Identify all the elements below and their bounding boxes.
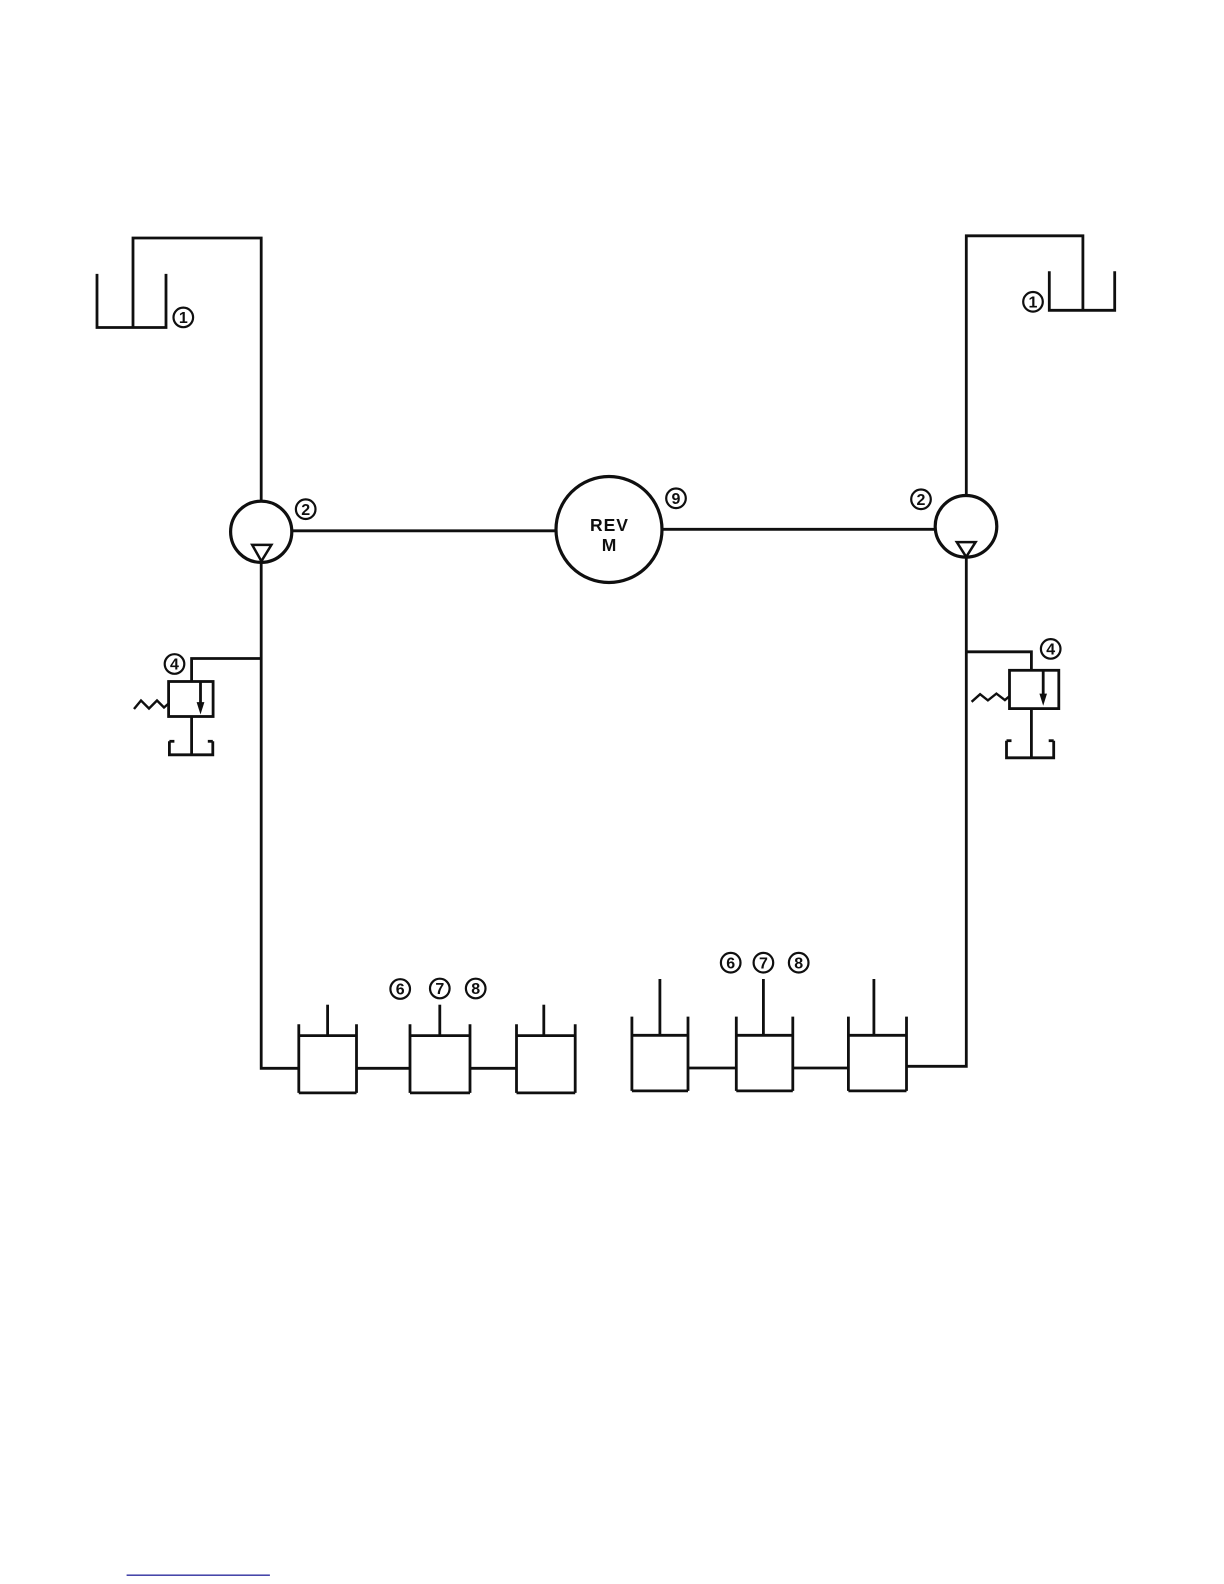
pump 2 (right) flow triangle: [957, 542, 976, 557]
motor U9 REV M: [556, 477, 662, 583]
label 8 (left group callout): [466, 979, 486, 999]
label 2 (right pump callout): [911, 490, 931, 510]
wire: right pressure line down to box group: [907, 557, 967, 1066]
reservoir 1 (right tank): [1049, 271, 1114, 310]
label 7 (left group callout): [430, 979, 450, 999]
relief valve 4 (left) body: [169, 682, 214, 717]
wire: left pump to motor: [292, 529, 557, 532]
svg-text:8: 8: [471, 981, 480, 998]
pump 2 (left): [231, 501, 292, 562]
wire: right pump inlet up, top-right run, suction pipe into tank: [966, 236, 1083, 496]
label 8 (right group callout): [789, 953, 809, 973]
wire: left pressure line down to box group: [261, 562, 299, 1068]
wire: motor to right pump: [662, 528, 935, 531]
svg-text:1: 1: [1029, 295, 1038, 312]
label 4 (left relief valve callout): [165, 654, 185, 674]
wire: left relief valve drain: [190, 717, 193, 755]
cylinder 6 (right group box 4): [632, 979, 688, 1091]
cylinder 7 (left group box 2): [410, 1005, 470, 1093]
wire: right relief valve drain: [1030, 709, 1033, 758]
label 1 (right reservoir callout): [1023, 292, 1043, 312]
label 1 (left reservoir callout): [174, 308, 194, 328]
relief valve 4 (left) flow arrow: [197, 682, 205, 715]
pump 2 (left) flow triangle: [252, 545, 271, 561]
cylinder 8 (left group box 3): [517, 1005, 576, 1093]
wire: box 5 to box 6: [793, 1067, 849, 1070]
cylinder 7 (right group box 5): [736, 979, 793, 1091]
cylinder 8 (right group box 6): [848, 979, 906, 1091]
wire: box 4 to box 5: [688, 1067, 736, 1070]
svg-text:2: 2: [301, 502, 310, 519]
svg-text:2: 2: [917, 492, 926, 509]
wire: box 1 to box 2: [357, 1067, 411, 1070]
drain tank (left relief valve): [169, 741, 212, 755]
motor text REV M: [590, 515, 629, 555]
wire: left suction pipe, top-left run, down to pump inlet: [133, 238, 261, 501]
footer rule (blue): [127, 1574, 270, 1576]
drain tank (right relief valve): [1007, 741, 1054, 758]
svg-text:REV: REV: [590, 515, 629, 535]
relief valve 4 (right) flow arrow: [1039, 670, 1047, 706]
label 2 (left pump callout): [296, 499, 316, 519]
relief valve 4 (right) body: [1010, 670, 1059, 708]
label 6 (right group callout): [721, 953, 741, 973]
relief valve 4 (left) spring: [134, 701, 169, 710]
wire: branch to right relief valve: [966, 652, 1031, 671]
svg-text:6: 6: [726, 955, 735, 972]
svg-text:8: 8: [794, 955, 803, 972]
svg-text:7: 7: [435, 981, 444, 998]
svg-text:9: 9: [672, 491, 681, 508]
wire: branch to left relief valve: [192, 659, 262, 682]
reservoir 1 (left tank): [97, 274, 166, 328]
svg-text:6: 6: [396, 982, 405, 999]
pump 2 (right): [935, 496, 997, 558]
svg-text:4: 4: [1046, 642, 1055, 659]
cylinder 6 (left group box 1): [299, 1005, 357, 1093]
label 4 (right relief valve callout): [1041, 639, 1061, 659]
label 7 (right group callout): [754, 953, 774, 973]
label 6 (left group callout): [390, 979, 410, 999]
relief valve 4 (right) spring: [972, 694, 1010, 702]
wire: box 2 to box 3: [470, 1067, 517, 1070]
svg-text:4: 4: [170, 657, 179, 674]
svg-text:7: 7: [759, 955, 768, 972]
svg-text:M: M: [602, 535, 617, 555]
svg-text:1: 1: [179, 310, 188, 327]
label 9 (motor callout): [666, 489, 686, 509]
